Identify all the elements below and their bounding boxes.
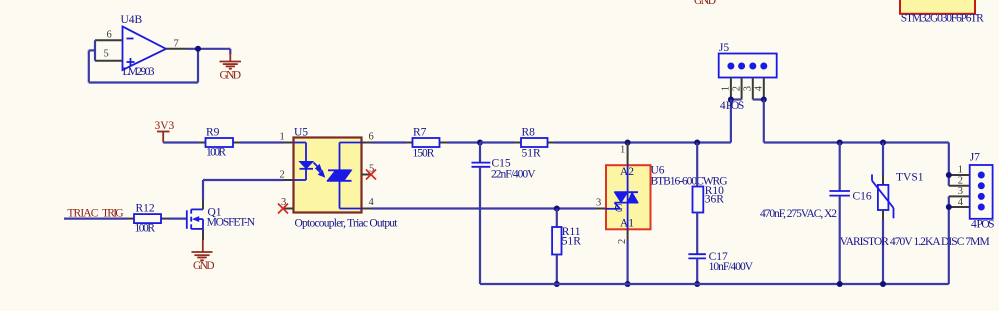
junction U6 bottom bbox=[625, 281, 631, 287]
junction R11 bottom bbox=[554, 281, 560, 287]
svg-text:GND: GND bbox=[193, 260, 215, 272]
resistor R12 bbox=[128, 214, 169, 223]
svg-text:1: 1 bbox=[721, 86, 732, 91]
svg-text:51R: 51R bbox=[522, 148, 542, 160]
wire U6 to bottom rail bbox=[626, 240, 628, 284]
U4B pin 7 stub bbox=[166, 48, 186, 50]
U6 triac symbol bbox=[606, 165, 638, 229]
wire U5 pin4 to U6 gate bbox=[372, 207, 597, 209]
svg-text:GND: GND bbox=[220, 70, 242, 82]
wire R12 to Q1 gate bbox=[169, 218, 187, 220]
svg-text:1: 1 bbox=[620, 145, 625, 156]
svg-text:3: 3 bbox=[743, 86, 754, 91]
U5 pin 1 stub bbox=[284, 142, 294, 144]
svg-text:R7: R7 bbox=[413, 127, 427, 139]
wire junction to R8 bbox=[480, 141, 514, 143]
junction J7 pin1 bbox=[946, 172, 952, 178]
junction J5 pin4 bbox=[761, 97, 767, 103]
wire down to ground bbox=[229, 49, 231, 54]
svg-text:10nF/400V: 10nF/400V bbox=[709, 261, 754, 273]
J7 pin 2 bbox=[949, 185, 970, 187]
wire R8 to J5 branch bbox=[555, 141, 731, 143]
svg-text:4: 4 bbox=[369, 197, 375, 208]
svg-text:7: 7 bbox=[174, 39, 179, 50]
U5 triac vertical bbox=[339, 143, 341, 209]
Q1 source pin bbox=[202, 229, 204, 240]
svg-text:U5: U5 bbox=[294, 127, 308, 139]
U5 pin 2 stub bbox=[284, 179, 294, 181]
svg-text:1: 1 bbox=[958, 165, 963, 176]
wire U5 pin6 to R7 bbox=[372, 141, 407, 143]
svg-text:150R: 150R bbox=[413, 148, 435, 160]
junction output node bbox=[195, 46, 201, 52]
svg-text:VARISTOR 470V 1.2KA DISC 7MM: VARISTOR 470V 1.2KA DISC 7MM bbox=[840, 236, 990, 248]
svg-text:6: 6 bbox=[369, 132, 374, 143]
ground symbol Q1 bbox=[192, 240, 213, 261]
junction R10 tap bbox=[694, 140, 700, 146]
svg-text:U4B: U4B bbox=[121, 14, 143, 26]
no-connect X pin 5 bbox=[366, 170, 376, 180]
svg-text:100R: 100R bbox=[206, 147, 226, 159]
svg-text:A1: A1 bbox=[620, 218, 634, 230]
wire to U5 pin2 bbox=[203, 179, 284, 181]
svg-text:1: 1 bbox=[280, 132, 285, 143]
U5 pin 6 stub bbox=[362, 142, 372, 144]
J7 pin numbers bbox=[958, 165, 964, 208]
J5 pin 3 bbox=[752, 78, 754, 100]
svg-text:4 POS: 4 POS bbox=[720, 100, 744, 112]
IC U8 STM32 body corner bbox=[900, 0, 975, 14]
svg-text:4 POS: 4 POS bbox=[971, 219, 995, 231]
bottom rail wire bbox=[480, 283, 949, 285]
U6 pin 1 stub bbox=[627, 143, 629, 166]
wire Q1 drain to U5 pin2 vertical bbox=[202, 180, 204, 200]
svg-text:G: G bbox=[615, 203, 623, 215]
U6 gate pin stub bbox=[596, 208, 606, 210]
U5 pin 4 stub bbox=[362, 208, 372, 210]
J5 pin 4 bbox=[763, 78, 765, 100]
junction U6 tap bbox=[625, 140, 631, 146]
no-connect X pin 3 bbox=[278, 204, 288, 214]
junction C17 bottom bbox=[694, 281, 700, 287]
J7 contact dots bbox=[978, 172, 984, 210]
wire R7 to junction bbox=[448, 141, 481, 143]
wire R9 to U5 pin1 bbox=[240, 141, 284, 143]
svg-text:R9: R9 bbox=[206, 127, 220, 139]
capacitor C17 bbox=[688, 254, 706, 284]
junction J5 pin1 bbox=[728, 97, 734, 103]
svg-text:3: 3 bbox=[958, 186, 963, 197]
connector J5 bbox=[719, 54, 777, 78]
svg-text:36R: 36R bbox=[705, 194, 725, 206]
junction TVS1 bottom bbox=[880, 281, 886, 287]
Q1 drain pin bbox=[202, 200, 204, 210]
wire top rail down to J7 bbox=[948, 143, 950, 186]
U5 triac triangles bbox=[327, 170, 344, 181]
resistor R10 bbox=[693, 143, 704, 255]
wire output to ground bbox=[186, 48, 230, 50]
J7 pin 3 bbox=[949, 195, 970, 197]
svg-text:4: 4 bbox=[958, 197, 964, 208]
J7 pin 4 bbox=[949, 206, 970, 208]
wire J5 pin2 to pin1 bbox=[731, 98, 742, 100]
wire feedback left vertical bbox=[88, 50, 90, 82]
varistor TVS1 bbox=[872, 143, 894, 285]
svg-text:STM32G030F6P6TR: STM32G030F6P6TR bbox=[901, 13, 984, 25]
wire input tie vertical bbox=[94, 40, 96, 60]
svg-text:TVS1: TVS1 bbox=[896, 172, 924, 184]
J5 pin 2 bbox=[741, 78, 743, 100]
U5 pin 5 stub bbox=[362, 174, 372, 176]
J5 pin 1 bbox=[730, 78, 732, 100]
U4B pin 5 stub bbox=[95, 60, 123, 62]
op-amp U4B bbox=[123, 27, 167, 71]
junction J7 pin4 bbox=[946, 204, 952, 210]
junction C16 bottom bbox=[837, 281, 843, 287]
wire feedback bottom bbox=[89, 81, 198, 83]
U5 pin 3 stub bbox=[284, 208, 294, 210]
svg-text:R8: R8 bbox=[522, 127, 536, 139]
U5 triac bars bbox=[328, 169, 352, 171]
triac U6 bbox=[606, 165, 651, 229]
svg-text:6: 6 bbox=[107, 30, 112, 41]
wire J7 pin3 to bottom rail bbox=[948, 196, 950, 284]
wire TRIAC_TRIG to R12 bbox=[64, 218, 128, 220]
svg-text:LM2903: LM2903 bbox=[123, 66, 155, 78]
svg-text:2: 2 bbox=[731, 86, 742, 91]
U5 LED anode wire bbox=[294, 142, 307, 144]
wire J5 pin3 to pin4 bbox=[753, 98, 764, 100]
svg-text:C16: C16 bbox=[853, 191, 872, 203]
wire jog bbox=[89, 49, 95, 51]
U5 emission arrows bbox=[314, 163, 325, 177]
U6 pin 2 stub bbox=[627, 229, 629, 240]
svg-text:3V3: 3V3 bbox=[155, 120, 175, 132]
wire J5 pin1 down bbox=[730, 100, 732, 143]
svg-text:22nF/400V: 22nF/400V bbox=[491, 169, 536, 181]
optocoupler U5 bbox=[294, 138, 362, 213]
svg-text:51R: 51R bbox=[562, 236, 582, 248]
capacitor C16 bbox=[829, 143, 850, 285]
wire J5 pin4 down bbox=[763, 100, 765, 143]
J7 pin 1 bbox=[949, 174, 970, 176]
ground symbol op-amp bbox=[220, 53, 242, 69]
svg-text:5: 5 bbox=[104, 49, 109, 60]
J5 contact dots bbox=[728, 63, 767, 69]
junction C16 tap bbox=[837, 140, 843, 146]
capacitor C15 bbox=[472, 143, 491, 285]
connector J7 bbox=[970, 165, 993, 219]
junction C15 tap bbox=[477, 140, 483, 146]
resistor R9 bbox=[199, 138, 240, 147]
wire J5 to J7 top rail bbox=[764, 141, 949, 143]
resistor R8 bbox=[514, 138, 555, 147]
svg-text:2: 2 bbox=[280, 169, 285, 180]
resistor R11 bbox=[552, 209, 561, 285]
svg-text:GND: GND bbox=[694, 0, 716, 7]
svg-text:J5: J5 bbox=[719, 42, 729, 54]
svg-text:2: 2 bbox=[617, 239, 628, 244]
power port 3V3 bbox=[155, 120, 175, 143]
junction TVS1 tap bbox=[880, 140, 886, 146]
resistor R7 bbox=[406, 138, 448, 147]
wire feedback right vertical bbox=[197, 49, 199, 83]
svg-text:MOSFET-N: MOSFET-N bbox=[207, 217, 256, 229]
svg-text:Optocoupler, Triac Output: Optocoupler, Triac Output bbox=[295, 218, 399, 230]
J5 pin numbers rotated bbox=[721, 85, 765, 91]
wire 3V3 to R9 bbox=[163, 141, 199, 143]
svg-text:R12: R12 bbox=[136, 203, 155, 215]
svg-text:4: 4 bbox=[754, 85, 765, 91]
svg-text:470nF, 275VAC, X2: 470nF, 275VAC, X2 bbox=[760, 208, 837, 220]
svg-text:2: 2 bbox=[958, 175, 963, 186]
svg-text:3: 3 bbox=[596, 198, 601, 209]
U5 LED bbox=[300, 162, 314, 169]
svg-text:J7: J7 bbox=[970, 152, 980, 164]
U4B pin 6 stub bbox=[95, 39, 123, 41]
svg-text:100R: 100R bbox=[135, 223, 156, 235]
transistor Q1 bbox=[187, 209, 203, 229]
junction R11 tap bbox=[554, 206, 560, 212]
